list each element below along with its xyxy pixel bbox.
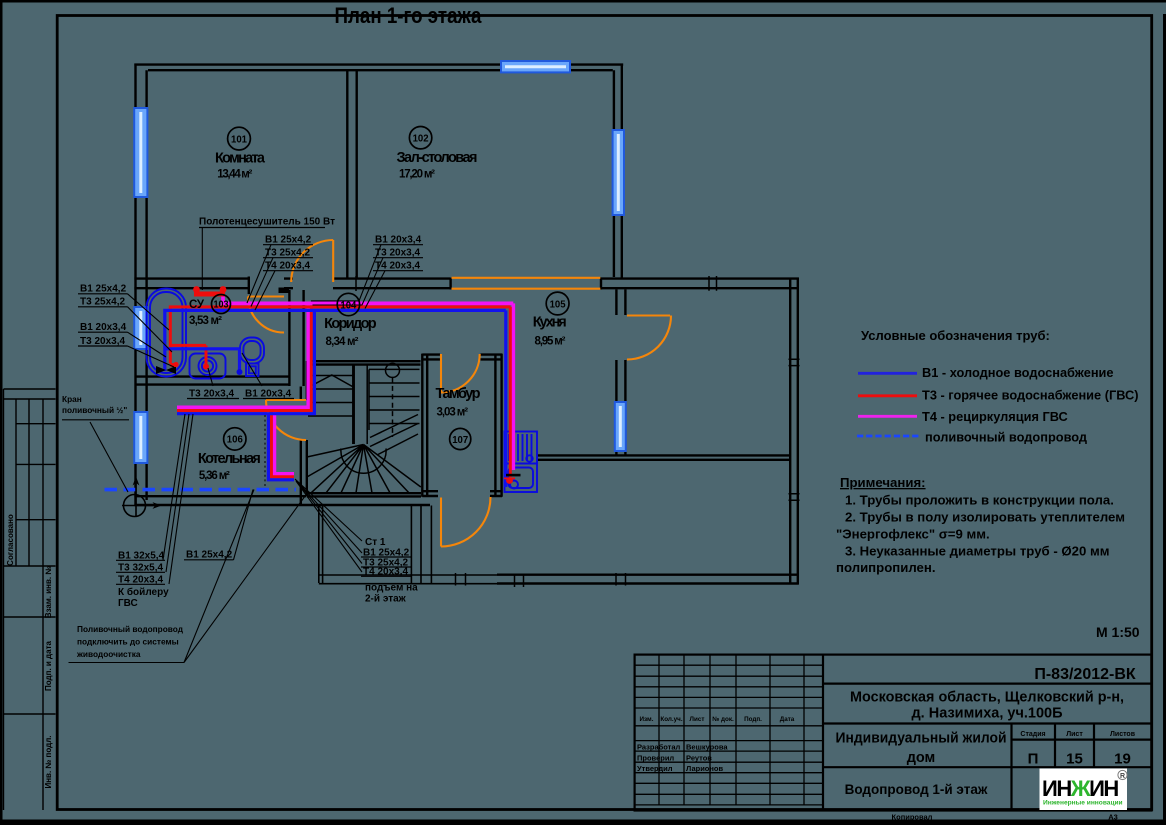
svg-text:Подп. и дата: Подп. и дата xyxy=(44,640,53,690)
svg-text:3,03 м²: 3,03 м² xyxy=(437,407,469,419)
svg-text:В1 25х4,2: В1 25х4,2 xyxy=(80,284,127,295)
svg-text:П-83/2012-ВК: П-83/2012-ВК xyxy=(1034,666,1136,683)
svg-text:Вешкурова: Вешкурова xyxy=(686,743,728,752)
svg-text:В1 20х3,4: В1 20х3,4 xyxy=(245,389,292,400)
svg-text:13,44 м²: 13,44 м² xyxy=(217,168,252,180)
svg-text:Водопровод 1-й этаж: Водопровод 1-й этаж xyxy=(845,782,988,797)
svg-text:105: 105 xyxy=(550,298,566,310)
svg-text:Изм.: Изм. xyxy=(640,716,654,723)
svg-text:1. Трубы проложить в конструкц: 1. Трубы проложить в конструкции пола. xyxy=(845,493,1114,508)
svg-text:Т4 20х3,4: Т4 20х3,4 xyxy=(265,261,310,272)
svg-text:Кол.уч.: Кол.уч. xyxy=(660,716,682,723)
svg-text:Листов: Листов xyxy=(1110,731,1136,738)
svg-text:В1 - холодное водоснабжение: В1 - холодное водоснабжение xyxy=(922,365,1114,380)
svg-text:102: 102 xyxy=(413,133,429,145)
svg-text:Стадия: Стадия xyxy=(1020,731,1045,738)
svg-text:Т3 25х4,2: Т3 25х4,2 xyxy=(265,248,310,259)
svg-text:Инженерные инновации: Инженерные инновации xyxy=(1043,800,1123,807)
svg-text:3. Неуказанные диаметры труб -: 3. Неуказанные диаметры труб - Ø20 мм xyxy=(845,544,1110,559)
svg-text:Т3 20х3,4: Т3 20х3,4 xyxy=(80,336,125,347)
svg-text:Коридор: Коридор xyxy=(324,316,377,332)
svg-text:М 1:50: М 1:50 xyxy=(1096,624,1140,640)
svg-text:К бойлеру: К бойлеру xyxy=(118,586,169,598)
svg-text:Кран: Кран xyxy=(62,394,82,404)
svg-text:107: 107 xyxy=(452,434,468,446)
svg-text:ИНЖИН: ИНЖИН xyxy=(1042,776,1118,801)
svg-text:Комната: Комната xyxy=(215,151,266,167)
svg-text:103: 103 xyxy=(214,300,229,311)
svg-text:поливочный ½": поливочный ½" xyxy=(62,405,127,415)
svg-text:Условные обозначения труб:: Условные обозначения труб: xyxy=(861,328,1050,343)
svg-text:Утвердил: Утвердил xyxy=(637,764,673,773)
svg-text:"Энергофлекс" σ=9 мм.: "Энергофлекс" σ=9 мм. xyxy=(836,527,990,542)
svg-text:Т4 20х3,4: Т4 20х3,4 xyxy=(375,261,420,272)
svg-text:Примечания:: Примечания: xyxy=(840,475,926,490)
svg-text:Поливочный водопровод: Поливочный водопровод xyxy=(77,624,184,634)
svg-text:подключить до системы: подключить до системы xyxy=(77,637,179,647)
svg-text:8,95 м²: 8,95 м² xyxy=(535,336,566,348)
svg-text:В1 25х4,2: В1 25х4,2 xyxy=(186,550,233,561)
svg-text:Дата: Дата xyxy=(780,716,795,723)
svg-text:В1 20х3,4: В1 20х3,4 xyxy=(80,322,127,333)
svg-text:Т3 - горячее водоснабжение (ГВ: Т3 - горячее водоснабжение (ГВС) xyxy=(922,388,1139,403)
svg-text:Т3 25х4,2: Т3 25х4,2 xyxy=(80,297,125,308)
svg-text:дом: дом xyxy=(907,750,936,766)
svg-text:Копировал: Копировал xyxy=(892,813,933,822)
svg-text:Взам. инв. №: Взам. инв. № xyxy=(44,566,53,619)
svg-text:Разработал: Разработал xyxy=(637,743,681,752)
svg-text:Т4 - рециркуляция ГВС: Т4 - рециркуляция ГВС xyxy=(922,409,1068,424)
svg-text:Лист: Лист xyxy=(690,716,705,723)
svg-text:8,34 м²: 8,34 м² xyxy=(326,336,359,348)
svg-text:15: 15 xyxy=(1066,751,1083,768)
svg-text:В1 20х3,4: В1 20х3,4 xyxy=(375,235,422,246)
svg-text:Реутов: Реутов xyxy=(686,754,712,763)
svg-text:полипропилен.: полипропилен. xyxy=(836,560,936,575)
svg-text:Согласовано: Согласовано xyxy=(6,514,15,566)
svg-text:Инв. № подл.: Инв. № подл. xyxy=(44,735,53,788)
svg-text:Ларионов: Ларионов xyxy=(686,764,724,773)
svg-text:ГВС: ГВС xyxy=(118,598,138,609)
svg-text:А3: А3 xyxy=(1108,813,1118,822)
svg-text:106: 106 xyxy=(227,434,243,446)
svg-text:СУ: СУ xyxy=(189,299,205,311)
svg-text:поливочный водопровод: поливочный водопровод xyxy=(925,430,1087,445)
svg-text:Тамбур: Тамбур xyxy=(436,386,481,402)
svg-text:Котельная: Котельная xyxy=(198,451,261,467)
svg-text:Т3 20х3,4: Т3 20х3,4 xyxy=(189,389,234,400)
svg-text:д. Назимиха, уч.100Б: д. Назимиха, уч.100Б xyxy=(911,706,1062,722)
svg-text:17,20 м²: 17,20 м² xyxy=(399,169,435,181)
svg-text:Зал-столовая: Зал-столовая xyxy=(397,150,478,166)
svg-text:П: П xyxy=(1028,751,1039,768)
svg-text:живодоочистка: живодоочистка xyxy=(76,649,141,659)
svg-text:Т3 20х3,4: Т3 20х3,4 xyxy=(375,248,420,259)
svg-text:Лист: Лист xyxy=(1066,731,1083,738)
svg-text:В1 25х4,2: В1 25х4,2 xyxy=(265,235,312,246)
svg-text:3,53 м²: 3,53 м² xyxy=(189,315,222,327)
svg-text:101: 101 xyxy=(231,133,247,145)
svg-text:Ст 1: Ст 1 xyxy=(365,537,386,548)
svg-text:R: R xyxy=(1120,773,1125,780)
svg-text:104: 104 xyxy=(340,299,356,311)
svg-text:2-й этаж: 2-й этаж xyxy=(365,594,407,605)
svg-text:План 1-го этажа: План 1-го этажа xyxy=(335,3,483,28)
svg-text:2. Трубы в полу изолировать ут: 2. Трубы в полу изолировать утеплителем xyxy=(845,510,1125,525)
svg-text:Полотенцесушитель 150 Вт: Полотенцесушитель 150 Вт xyxy=(199,217,335,228)
svg-text:подъем на: подъем на xyxy=(365,583,418,594)
svg-text:Индивидуальный жилой: Индивидуальный жилой xyxy=(836,731,1007,747)
svg-text:Подп.: Подп. xyxy=(744,716,762,723)
svg-text:19: 19 xyxy=(1114,751,1131,768)
svg-text:5,36 м²: 5,36 м² xyxy=(199,470,230,482)
svg-text:Московская область, Щелковский: Московская область, Щелковский р-н, xyxy=(850,690,1124,706)
svg-text:Кухня: Кухня xyxy=(533,315,567,331)
svg-text:Проверил: Проверил xyxy=(637,754,674,763)
svg-text:№ док.: № док. xyxy=(712,716,734,723)
